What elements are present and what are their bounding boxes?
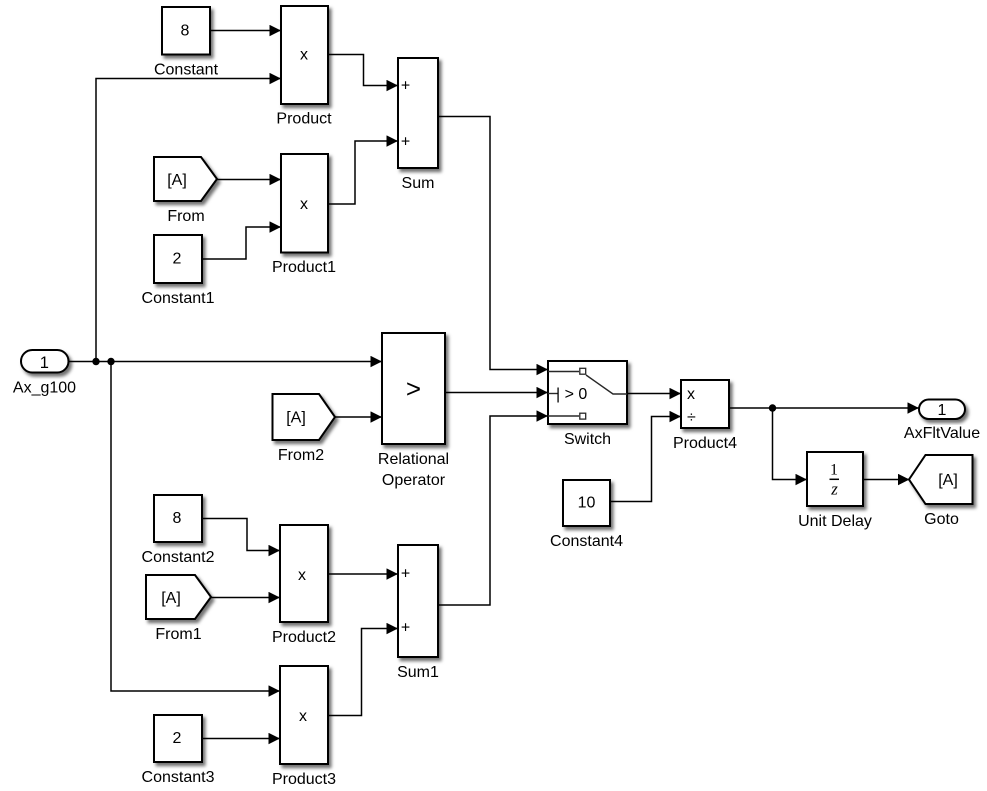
constant Constant value 8: [154, 7, 219, 79]
wire Sum1 out to Switch in3: [438, 416, 548, 605]
wire Constant4 to Product4 in2: [610, 417, 681, 502]
svg-text:Operator: Operator: [382, 472, 446, 489]
switch internal selector diagonal: [586, 375, 627, 394]
from From tag A: [154, 157, 217, 225]
svg-text:x: x: [298, 567, 306, 584]
constant Constant2 value 8: [142, 495, 215, 566]
svg-text:[A]: [A]: [167, 172, 187, 189]
wire Product4 out to outport AxFltValue: [729, 407, 919, 409]
constant Constant3 value 2: [142, 715, 215, 786]
svg-text:From: From: [167, 208, 204, 225]
wire Sum out to Switch in1: [438, 117, 548, 370]
svg-text:+: +: [401, 566, 410, 583]
svg-text:1: 1: [938, 402, 947, 419]
wire Relational out to Switch in2: [445, 392, 548, 394]
constant Constant1 value 2: [142, 235, 215, 307]
switch Switch: [548, 361, 627, 448]
wire junction down to Unit Delay in: [773, 408, 808, 480]
switch internal input2 stub: [548, 393, 558, 395]
sum Sum1: [397, 545, 439, 681]
svg-text:Goto: Goto: [924, 511, 959, 528]
wire branch down from node B to Product3 in1: [111, 362, 280, 692]
svg-text:[A]: [A]: [938, 472, 958, 489]
product Product2: [272, 525, 336, 646]
svg-text:Sum: Sum: [402, 175, 435, 192]
product Product: [276, 6, 332, 128]
relational operator: [378, 333, 449, 489]
svg-text:Product: Product: [276, 111, 332, 128]
svg-text:1: 1: [830, 462, 838, 479]
svg-text:From2: From2: [278, 447, 324, 464]
wire Product3 out to Sum1 in2: [328, 629, 398, 716]
product Product3: [272, 666, 336, 788]
goto tag A: [909, 455, 973, 528]
svg-text:From1: From1: [155, 626, 201, 643]
svg-text:[A]: [A]: [161, 590, 181, 607]
svg-text:Constant: Constant: [154, 62, 219, 79]
wire branch up from node A to Product in2: [96, 79, 281, 362]
node A junction dot: [92, 358, 99, 365]
node B junction dot: [107, 358, 114, 365]
switch internal input3 line: [548, 415, 579, 417]
svg-text:Product3: Product3: [272, 771, 336, 788]
svg-text:z: z: [830, 480, 838, 499]
wire From to Product1 in1: [217, 179, 281, 181]
constant Constant4 value 10: [550, 480, 623, 550]
switch internal input3 port square: [580, 413, 586, 419]
svg-text:[A]: [A]: [286, 410, 306, 427]
svg-text:8: 8: [173, 510, 182, 527]
wire Constant2 to Product2 in1: [202, 519, 280, 551]
wire From2 to Relational in2: [335, 416, 382, 418]
svg-text:÷: ÷: [687, 409, 696, 426]
inport 1 Ax_g100: [13, 350, 76, 397]
svg-text:Constant2: Constant2: [142, 549, 215, 566]
svg-text:Constant4: Constant4: [550, 533, 623, 550]
from From2 tag A: [273, 394, 336, 464]
svg-text:Constant3: Constant3: [142, 769, 215, 786]
svg-text:x: x: [300, 196, 308, 213]
svg-text:Unit Delay: Unit Delay: [798, 513, 872, 530]
product Product1: [272, 154, 336, 276]
product Product4: [673, 380, 737, 452]
unit delay: [798, 452, 872, 530]
wire From1 to Product2 in2: [211, 597, 280, 599]
node C junction dot: [769, 404, 776, 411]
svg-text:x: x: [300, 47, 308, 64]
svg-text:Product1: Product1: [272, 259, 336, 276]
svg-text:10: 10: [578, 495, 596, 512]
svg-text:+: +: [401, 134, 410, 151]
wire Product1 out to Sum in2: [328, 141, 398, 204]
svg-text:+: +: [401, 620, 410, 637]
wire Constant1 to Product1 in2: [202, 227, 281, 259]
wire Unit Delay out to Goto: [863, 479, 910, 481]
svg-text:Sum1: Sum1: [397, 664, 439, 681]
svg-text:1: 1: [40, 354, 49, 372]
svg-text:>: >: [406, 374, 421, 404]
svg-text:Relational: Relational: [378, 451, 449, 468]
wire Constant3 to Product3 in2: [202, 738, 280, 740]
wire Product out to Sum in1: [328, 55, 398, 86]
outport 1 AxFltValue: [904, 400, 980, 443]
svg-text:Switch: Switch: [564, 431, 611, 448]
svg-text:x: x: [687, 386, 695, 403]
svg-text:| > 0: | > 0: [556, 386, 587, 403]
sum Sum: [398, 58, 438, 192]
svg-text:Ax_g100: Ax_g100: [13, 380, 76, 397]
from From1 tag A: [146, 575, 211, 643]
svg-text:x: x: [299, 708, 307, 725]
svg-text:Constant1: Constant1: [142, 290, 215, 307]
svg-text:+: +: [401, 78, 410, 95]
svg-text:AxFltValue: AxFltValue: [904, 425, 980, 442]
switch internal input1 line: [548, 371, 579, 373]
wire inport to Relational in1: [68, 361, 382, 363]
wire Switch out to Product4 in1: [627, 393, 681, 395]
wire Product2 out to Sum1 in1: [328, 573, 398, 575]
svg-text:2: 2: [173, 251, 182, 268]
svg-text:Product4: Product4: [673, 435, 737, 452]
svg-text:Product2: Product2: [272, 629, 336, 646]
switch internal input1 port square: [580, 368, 586, 374]
wire Constant to Product in1: [210, 30, 281, 32]
svg-text:2: 2: [173, 730, 182, 747]
svg-text:8: 8: [181, 23, 190, 40]
